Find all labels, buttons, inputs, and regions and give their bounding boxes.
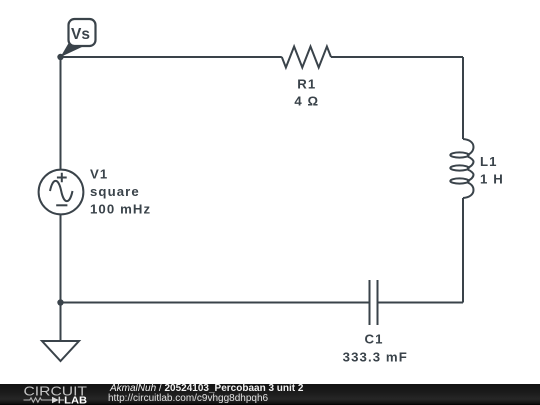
wire left upper: node A down to V1 top	[60, 57, 62, 170]
svg-text:Vs: Vs	[71, 26, 90, 43]
svg-text:C1: C1	[364, 331, 383, 346]
node A dot	[57, 54, 63, 60]
svg-text:333.3 mF: 333.3 mF	[343, 350, 408, 365]
svg-text:4 Ω: 4 Ω	[294, 94, 319, 109]
svg-text:LAB: LAB	[64, 395, 87, 405]
footer bar	[0, 384, 540, 405]
wire top right: R1 to top-right corner	[331, 56, 463, 58]
logo diode	[52, 397, 59, 404]
logo CircuitLab	[0, 384, 110, 405]
wire right upper: corner to L1 top	[462, 57, 464, 139]
svg-text:V1: V1	[90, 167, 108, 182]
inductor L1	[450, 139, 473, 198]
capacitor C1	[370, 280, 378, 325]
voltage source V1	[39, 170, 84, 215]
ground	[42, 341, 79, 361]
svg-text:L1: L1	[480, 154, 498, 169]
wire bottom left: C1 left plate to node B	[61, 302, 370, 304]
wire top left: node A to R1	[61, 56, 282, 58]
flag Vs	[61, 19, 96, 57]
svg-text:1 H: 1 H	[480, 171, 504, 186]
node B dot	[57, 299, 63, 305]
logo resistor squiggle	[24, 398, 65, 402]
wire ground stem	[60, 303, 62, 342]
wire bottom right: corner to C1 right plate	[378, 302, 464, 304]
svg-text:100 mHz: 100 mHz	[90, 202, 151, 217]
svg-text:R1: R1	[297, 76, 316, 91]
wire left lower: V1 bottom to node B	[60, 215, 62, 303]
resistor R1	[282, 47, 331, 68]
footer text	[110, 383, 303, 394]
svg-text:square: square	[90, 184, 140, 199]
wire right lower: L1 bottom to bottom-right corner	[462, 198, 464, 303]
